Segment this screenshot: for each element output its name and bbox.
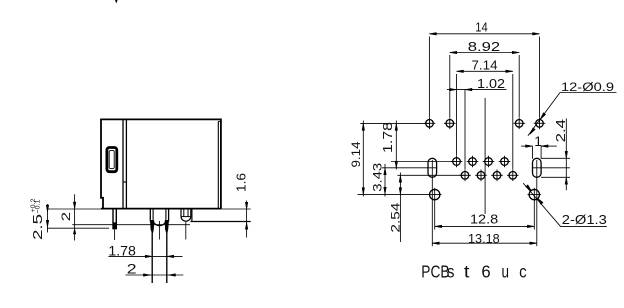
svg-text:2: 2 [61,212,73,221]
svg-text:7.14: 7.14 [472,58,498,73]
svg-text:c: c [519,261,527,281]
svg-text:u: u [502,261,510,281]
svg-text:2.54: 2.54 [388,202,402,232]
svg-text:12.8: 12.8 [470,212,498,227]
svg-text:9.14: 9.14 [349,141,363,167]
svg-text:2.4: 2.4 [553,119,568,143]
svg-text:14: 14 [475,20,488,35]
svg-text:2.5: 2.5 [31,214,45,240]
svg-text:2-Ø1.3: 2-Ø1.3 [562,212,607,227]
svg-text:−0.1: −0.1 [35,199,42,213]
svg-text:2: 2 [127,261,137,277]
svg-text:t: t [464,261,470,281]
svg-text:8.92: 8.92 [468,39,500,54]
svg-text:1.6: 1.6 [234,173,248,192]
svg-text:PCB: PCB [421,261,449,281]
svg-text:s: s [447,262,455,282]
svg-text:3.43: 3.43 [370,163,384,192]
svg-text:1.78: 1.78 [381,122,395,153]
svg-text:13.18: 13.18 [468,231,500,246]
svg-text:1.78: 1.78 [108,243,136,259]
svg-text:1.02: 1.02 [477,76,505,91]
svg-text:6: 6 [481,261,490,281]
svg-text:1: 1 [534,133,542,149]
svg-text:12-Ø0.9: 12-Ø0.9 [561,80,614,94]
